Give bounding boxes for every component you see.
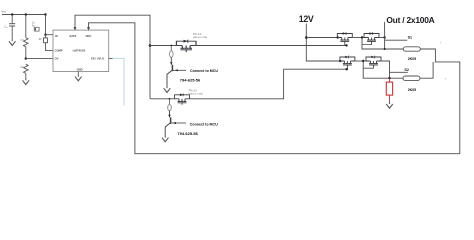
svg-text:S1: S1 <box>408 36 413 40</box>
wire EN/UVLO sense (light) <box>113 58 125 105</box>
wire Q3 base to MCU note <box>172 69 186 71</box>
junction on Vin bus at comp branch <box>44 13 46 15</box>
wire divider to EN pin <box>26 58 53 60</box>
fuse F1 <box>403 47 420 51</box>
svg-text:LM74502: LM74502 <box>73 49 86 53</box>
fuse F2 <box>403 76 420 80</box>
junction TVS tap <box>388 77 390 79</box>
svg-text:2K05: 2K05 <box>408 57 416 61</box>
wire 12V rail <box>306 24 340 62</box>
wire GND pin <box>77 72 79 75</box>
svg-text:Out / 2x100A: Out / 2x100A <box>386 15 434 25</box>
resistor Rg2 (ellipse) <box>169 99 171 105</box>
wire F2 to right rail <box>420 62 433 78</box>
wire Out rail <box>384 22 386 49</box>
svg-text:GND: GND <box>77 68 83 72</box>
wire gate stub C <box>346 67 348 69</box>
svg-text:(845-61-COM): (845-61-COM) <box>193 36 207 39</box>
junction 12V to row1 <box>305 36 308 39</box>
svg-text:(845-61-COM): (845-61-COM) <box>189 92 203 95</box>
wire row1 out <box>379 37 385 39</box>
svg-text:R1: R1 <box>21 38 25 42</box>
wire S2 stub <box>390 71 408 73</box>
node divider junction <box>25 57 27 59</box>
svg-text:OV: OV <box>55 56 59 60</box>
wire Rcomp to COMP pin <box>46 43 54 51</box>
wire DRC net <box>89 23 460 154</box>
svg-text:794-625-56: 794-625-56 <box>177 131 198 136</box>
wire midpoint1 drop <box>362 38 403 50</box>
junction on Vin bus at Cin <box>11 13 13 15</box>
annotation note box <box>34 27 39 31</box>
junction row1 midpoint <box>361 36 363 38</box>
svg-text:TPs 3.0: TPs 3.0 <box>193 33 202 36</box>
wire GATE net <box>75 15 150 99</box>
wire row1 feed <box>306 37 337 39</box>
wire EN/UVLO stub <box>109 57 113 59</box>
pin arrowhead GATE <box>74 27 77 30</box>
resistor Rg1 (ellipse) <box>170 46 172 51</box>
svg-text:GATE: GATE <box>69 34 76 38</box>
transistor Q8 (pair D) <box>366 56 381 67</box>
transistor Q1 <box>176 40 196 52</box>
wire gate stub A <box>344 44 346 46</box>
junction gate rail1 end <box>345 44 347 46</box>
junction row2 feed at Q7 <box>339 60 341 62</box>
wire comp branch from bus <box>45 15 47 35</box>
transistor Q6 (pair B) <box>364 32 379 43</box>
resistor R1 <box>24 38 29 47</box>
svg-text:Vin: Vin <box>1 10 6 14</box>
junction on Vin bus at divider <box>25 13 27 15</box>
transistor Q7 (pair C) <box>340 56 355 67</box>
svg-text:Connect to MCU: Connect to MCU <box>190 69 218 73</box>
ground under Cin <box>9 39 16 46</box>
wire gate stub B link <box>362 44 372 45</box>
junction out rail bottom <box>384 48 386 50</box>
wire junction to IN pin <box>46 34 54 36</box>
wire Q4 base to MCU note <box>171 122 186 124</box>
junction pulldown2 tap <box>169 98 171 100</box>
wire gate stub D link <box>363 67 373 68</box>
ground at Q3 emitter <box>164 86 171 93</box>
svg-text:2K05: 2K05 <box>408 88 416 92</box>
svg-text:12V: 12V <box>299 14 314 24</box>
wire row2 out <box>381 61 390 78</box>
svg-text:TPs 3.0: TPs 3.0 <box>189 89 198 92</box>
wire F1 to right rail <box>420 49 460 154</box>
wire divider branch top <box>25 15 27 38</box>
svg-text:EN / UVLO: EN / UVLO <box>91 56 104 60</box>
ground under U1 <box>75 74 82 81</box>
ground under divider <box>23 78 30 85</box>
wire gate rail row2 <box>150 69 347 99</box>
wire R1 to junction <box>25 47 27 59</box>
svg-text:R2: R2 <box>20 65 24 69</box>
junction row1 out on rail <box>383 36 385 38</box>
transistor Q2 <box>175 93 190 104</box>
svg-text:IN: IN <box>55 34 58 38</box>
ground under TVS <box>386 102 393 109</box>
transistor Q3 pulldown <box>167 57 173 85</box>
svg-text:S2: S2 <box>404 68 409 72</box>
op-amp U1 LM74502 controller box <box>53 30 109 71</box>
wire R2 to ground <box>25 73 27 78</box>
speck artifact 1 <box>440 42 441 43</box>
wire gate rail row1 <box>150 45 347 47</box>
transistor Q5 (pair A) <box>337 32 352 43</box>
ground at Q4 emitter <box>162 135 169 142</box>
wire row1 mid <box>352 37 364 39</box>
resistor R2 <box>24 64 29 73</box>
svg-text:COMP: COMP <box>55 49 63 53</box>
pin arrowhead DRC <box>87 27 90 30</box>
speck artifact 2 <box>445 78 446 79</box>
resistor Rcomp box <box>45 35 47 38</box>
junction row2 midpoint <box>362 60 364 62</box>
svg-text:Connect to MCU: Connect to MCU <box>190 123 218 127</box>
node comp branch junction <box>44 34 46 36</box>
wire Vin bus <box>2 14 46 16</box>
wire row2 mid <box>355 60 366 62</box>
wire midpoint2 drop <box>363 61 403 78</box>
capacitor Cin <box>9 15 15 39</box>
junction GATE net to row1 gate rail <box>149 44 152 47</box>
transistor Q4 pulldown <box>165 111 171 135</box>
junction pulldown1 tap <box>170 45 172 47</box>
TVS D1 (red) <box>389 78 391 82</box>
junction gate rail2 end <box>346 68 348 70</box>
wire S1 stub <box>385 39 408 41</box>
svg-text:DRC: DRC <box>86 34 92 38</box>
svg-text:794-625-56: 794-625-56 <box>180 77 201 82</box>
junction row1 feed at Q5 <box>337 36 339 38</box>
